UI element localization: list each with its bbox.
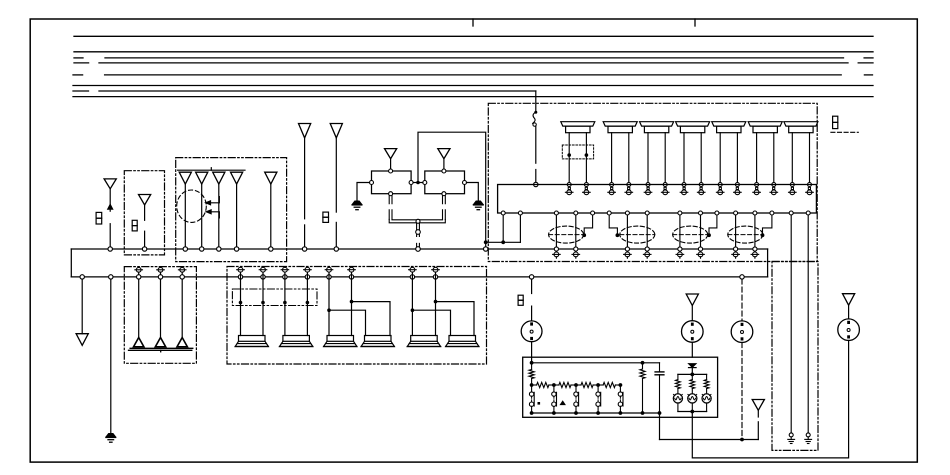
dash-dot box speaker group xyxy=(227,267,487,365)
branch wire W5 to speaker SP4 xyxy=(329,310,366,335)
relay K1 pin left xyxy=(370,181,374,185)
lamp L3 bottom wire xyxy=(706,403,708,412)
upper rail wire xyxy=(71,248,767,250)
wire T8 to rail xyxy=(304,138,306,219)
component N1 bar terminals xyxy=(568,187,570,189)
resistor R4 xyxy=(576,384,581,386)
speaker wire W7 xyxy=(411,272,413,335)
wire T2 upper xyxy=(144,205,146,220)
rotor contact arrow A1 xyxy=(205,201,210,205)
bar bottom pin nodes xyxy=(501,211,505,215)
component N5 leg wires xyxy=(719,133,721,185)
HT lead junction bracket xyxy=(389,219,416,236)
injector component N7 xyxy=(784,122,818,126)
dashed stub wire at F4 xyxy=(831,131,858,133)
control bar unit xyxy=(498,185,817,214)
shield drain wire D3 xyxy=(709,215,717,234)
wire T4 to rail xyxy=(201,184,203,249)
junction node on lower rail at C3 xyxy=(740,275,744,279)
junction dot CP1 bottom xyxy=(658,411,662,415)
ground G2 xyxy=(474,201,484,204)
lamp L1 bottom wire xyxy=(677,403,679,412)
junction node on upper rail at T5 xyxy=(217,247,221,251)
fuse F1 xyxy=(96,212,102,218)
wire pin ground lead GL1 xyxy=(790,215,792,433)
connector triangle T3 xyxy=(179,172,191,184)
injector component N6 xyxy=(748,122,782,126)
junction node on lower rail at plug 2 xyxy=(158,275,162,279)
HT lead K2 double wire xyxy=(442,196,444,204)
wire bus B7 drop xyxy=(535,91,537,111)
junction dot chain 5 xyxy=(619,383,623,387)
wire T1 to rail xyxy=(109,224,111,249)
component N6 bar pin nodes xyxy=(755,183,759,187)
junction dot W1 xyxy=(239,301,243,305)
junction dot switch 1 xyxy=(530,411,534,415)
connector triangle T2 xyxy=(139,195,151,206)
component N1 leg wires xyxy=(568,133,570,185)
injector component N5 xyxy=(712,122,746,126)
relay K1 pin right xyxy=(409,181,413,185)
junction dot W5 xyxy=(327,308,331,312)
capacitor CP1 xyxy=(659,363,661,372)
junction dot lamp node xyxy=(690,373,694,377)
wire gauge feed upper xyxy=(531,279,533,293)
rotor contact arrow A2 xyxy=(206,210,211,214)
component N7 bar terminals xyxy=(791,187,793,189)
wire T5 to rail xyxy=(218,184,220,249)
bus line B2 xyxy=(74,51,873,53)
junction node on upper rail at T7 xyxy=(269,247,273,251)
junction dot R6 bottom xyxy=(641,411,645,415)
speaker terminal 7 xyxy=(410,267,415,272)
lower rail wire xyxy=(71,276,767,278)
switch SW5 xyxy=(619,385,621,392)
fuse F4 xyxy=(833,116,838,122)
junction node on lower rail at speaker 2 xyxy=(261,275,265,279)
switch SW2 xyxy=(553,385,555,392)
component N5 bar pin nodes xyxy=(718,183,722,187)
spark plug P2 xyxy=(155,338,165,347)
shield drain wire D1 xyxy=(584,215,592,234)
speaker wire W3 xyxy=(284,272,286,335)
junction node on upper rail at T6 xyxy=(234,247,238,251)
diode D1 wire upper segment xyxy=(109,189,111,205)
relay K2 pin left xyxy=(423,181,427,185)
diode D1 xyxy=(108,204,113,209)
wire K1 left pin to ground xyxy=(357,183,370,201)
shield ellipse S3 xyxy=(673,226,708,243)
wire feed node to rail xyxy=(485,242,487,249)
resistor R6 vertical xyxy=(642,363,644,369)
shield drain wire D4 xyxy=(763,215,772,234)
distributor top bar wire xyxy=(178,169,245,171)
junction node on upper rail at T8 xyxy=(302,247,306,251)
spark plug terminal 2 xyxy=(158,267,163,272)
junction dot chain 1 xyxy=(530,383,534,387)
lamp branch top wire xyxy=(678,373,707,375)
switch SW2 mark xyxy=(560,401,565,404)
dash-dot box spark plug group xyxy=(124,267,196,364)
spark plug terminal 3 xyxy=(180,267,185,272)
gauge bottom bus wire xyxy=(532,412,660,414)
ground G5 xyxy=(106,434,116,437)
resistor R1 vertical xyxy=(531,363,533,370)
junction node on upper rail at feed xyxy=(484,247,488,251)
dash-dot box speaker connector xyxy=(232,289,317,306)
speaker terminal 5 xyxy=(327,267,332,272)
junction dot switch 5 xyxy=(619,411,623,415)
spark plug wire 3 xyxy=(181,272,183,337)
rail nodes S2 xyxy=(625,247,629,251)
junction node on lower rail at speaker 3 xyxy=(283,275,287,279)
spark plug wire 1 xyxy=(138,272,140,337)
component N4 bar terminals xyxy=(683,187,685,189)
junction node on lower rail at speaker 4 xyxy=(305,275,309,279)
wire T14 to connector C4 xyxy=(848,305,850,319)
speaker SP3 xyxy=(327,336,354,342)
indicator lamp L1 xyxy=(673,394,682,403)
branch wire W7 to speaker SP6 xyxy=(412,310,450,335)
junction dot W4 xyxy=(306,301,310,305)
lamp branch resistor R9 xyxy=(706,374,708,379)
junction dot gauge feed left xyxy=(530,361,534,365)
component N2 bar pin nodes xyxy=(610,183,614,187)
dash-dot box coil unit xyxy=(124,171,164,255)
wire pin P2 down xyxy=(519,215,521,242)
switch SW3 xyxy=(575,385,577,392)
wire T10 to relay K1 xyxy=(390,159,392,169)
connector C2 xyxy=(682,321,704,343)
speaker terminal 1 xyxy=(238,267,243,272)
connector triangle T11 xyxy=(438,149,450,159)
wire lamp node down xyxy=(691,412,693,418)
lamp L2 bottom wire xyxy=(691,403,693,412)
resistor R2 xyxy=(532,384,537,386)
connector C4 xyxy=(838,319,860,341)
wire C4 to gauge box bottom return xyxy=(692,341,848,458)
speaker wire W4 xyxy=(306,272,308,335)
connector triangle T10 xyxy=(385,149,397,159)
bus line B1 xyxy=(74,35,873,37)
bar pin node breaker xyxy=(534,182,538,186)
component N1 bar pin nodes xyxy=(567,183,571,187)
component N6 leg wires xyxy=(756,133,758,185)
junction node on lower rail at plug 1 xyxy=(137,275,141,279)
junction node on upper rail at T1 xyxy=(108,247,112,251)
junction dot chain 3 xyxy=(574,383,578,387)
rail right corner wire xyxy=(767,249,769,277)
wire C2 to gauge box xyxy=(691,342,693,357)
dotted box noise suppressor xyxy=(562,145,593,159)
relay K2 pin top xyxy=(442,169,446,173)
bus line B7 xyxy=(73,90,89,92)
fuse F2 xyxy=(132,220,137,225)
relay K2 pin right xyxy=(463,181,467,185)
wire pin ground lead GL2 xyxy=(807,215,809,433)
rail left corner wire xyxy=(70,249,72,277)
component N4 bar pin nodes xyxy=(682,183,686,187)
branch wire W6 to speaker SP4 xyxy=(352,302,391,336)
speaker SP1 xyxy=(239,336,266,342)
wire T9 upper xyxy=(335,138,337,212)
terminal glyphs S1 xyxy=(555,250,557,253)
HT lead K1 double wire xyxy=(388,196,390,204)
wire feed node to bar pins xyxy=(486,241,521,243)
speaker terminal 6 xyxy=(349,267,354,272)
indicator lamp L2 xyxy=(688,394,697,403)
junction node on upper rail at HT lead xyxy=(416,247,421,252)
speaker SP2 xyxy=(283,336,310,342)
lamp branch resistor R8 xyxy=(691,374,693,379)
bus line B8 xyxy=(73,96,873,98)
component N7 leg wires xyxy=(791,133,793,185)
component N6 bar terminals xyxy=(756,187,758,189)
wire K2 right pin to ground xyxy=(467,183,479,201)
bus line B5 xyxy=(73,74,83,76)
gauge top feed wire xyxy=(532,362,660,364)
relay K1 pin top xyxy=(389,169,393,173)
bus line B3 xyxy=(74,57,83,59)
speaker wire W5 xyxy=(328,272,330,335)
rail nodes S3 xyxy=(678,247,682,251)
relay K1 box xyxy=(372,171,412,194)
circuit breaker CB1 xyxy=(534,111,537,114)
junction dot chain 4 xyxy=(596,383,600,387)
component N3 leg wires xyxy=(647,133,649,185)
junction dot gauge feed mid xyxy=(641,361,645,365)
injector component N2 xyxy=(603,122,637,126)
rail nodes S1 xyxy=(554,247,558,251)
junction dot W8 xyxy=(434,300,438,304)
junction node on upper rail at T2 xyxy=(142,247,146,251)
diode D2 xyxy=(689,364,697,368)
wire T11 to relay K2 xyxy=(443,159,445,169)
junction node on lower rail at speaker 7 xyxy=(410,275,414,279)
relay K2 box xyxy=(425,171,465,194)
terminal glyphs S3 xyxy=(679,250,681,253)
dash-dot box control unit area xyxy=(488,103,817,261)
terminal glyphs S2 xyxy=(626,250,628,253)
HT lead lower double wire xyxy=(416,243,418,247)
junction dot switch 4 xyxy=(596,411,600,415)
junction node on upper rail at T9 xyxy=(334,247,338,251)
wire gauge feed lower xyxy=(531,306,533,321)
connector triangle T1 xyxy=(104,179,116,189)
connector C1 xyxy=(521,321,542,342)
connector triangle T13 xyxy=(686,294,698,306)
component N2 leg wires xyxy=(611,133,613,185)
spark plug wire 2 xyxy=(160,272,162,337)
junction node on lower rail at speaker 8 xyxy=(433,275,437,279)
indicator lamp L3 xyxy=(702,394,711,403)
junction dot feed node xyxy=(484,240,488,244)
wire T7 to rail xyxy=(270,184,272,249)
component N3 bar terminals xyxy=(647,187,649,189)
fuse F3 xyxy=(323,212,329,217)
junction dot at pin wire P1 xyxy=(501,240,505,244)
component N5 bar terminals xyxy=(719,187,721,189)
junction dot W2 xyxy=(261,301,265,305)
speaker SP6 xyxy=(449,336,476,342)
wire gauge box to bottom link xyxy=(659,413,661,440)
junction node on upper rail at T4 xyxy=(200,247,204,251)
connector triangle T4 xyxy=(196,172,208,184)
ground G4 xyxy=(806,433,810,437)
wire T3 to rail xyxy=(184,184,186,249)
shielded pair wires S3 xyxy=(679,215,681,249)
wire rail drop to connector triangle T12 xyxy=(80,275,84,279)
shield ellipse S1 xyxy=(549,226,584,243)
injector component N1 xyxy=(561,122,595,126)
connector triangle T5 xyxy=(213,172,225,184)
junction node on upper rail at T3 xyxy=(183,247,187,251)
speaker SP5 xyxy=(411,336,438,342)
dashed wire C3 down xyxy=(741,343,743,438)
speaker SP4 xyxy=(365,336,392,342)
junction node on lower rail at speaker 5 xyxy=(327,275,331,279)
ground G1 xyxy=(352,201,362,204)
speaker wire W1 xyxy=(240,272,242,335)
wire D2 to lamp node xyxy=(691,368,693,375)
dashed rotor circle xyxy=(177,190,207,222)
component N4 leg wires xyxy=(683,133,685,185)
junction dot W3 xyxy=(283,301,287,305)
junction dot chain 2 xyxy=(552,383,556,387)
connector C3 xyxy=(731,321,753,343)
ground G3 xyxy=(789,433,793,437)
speaker terminal 8 xyxy=(433,267,438,272)
switch SW1 xyxy=(531,385,533,392)
shield ellipse S2 xyxy=(620,226,655,243)
resistor R3 xyxy=(554,384,559,386)
connector triangle T7 xyxy=(265,172,277,184)
fold tick mark left xyxy=(472,19,474,26)
junction dot lamp bottom xyxy=(690,410,694,414)
speaker terminal 3 xyxy=(283,267,288,272)
switch SW1 mark xyxy=(538,402,541,405)
wire relay riser to right box xyxy=(418,132,486,242)
connector triangle T12 xyxy=(76,334,88,346)
speaker terminal 4 xyxy=(305,267,310,272)
rail nodes S4 xyxy=(734,247,738,251)
dashed wire rail to C3 xyxy=(741,279,743,321)
junction dot between relays xyxy=(416,181,420,185)
shield ellipse S4 xyxy=(728,226,763,243)
spark plug P3 xyxy=(177,338,187,347)
injector component N4 xyxy=(676,122,710,126)
connector triangle T15 xyxy=(752,400,764,411)
connector triangle T9 xyxy=(330,124,342,138)
junction dot C3 at bottom wire xyxy=(740,438,744,442)
junction dot W6 xyxy=(350,300,354,304)
shielded pair wires S4 xyxy=(735,215,737,249)
wire T2 to rail xyxy=(144,231,146,249)
branch wire W8 to speaker SP6 xyxy=(436,302,475,336)
component N7 bar pin nodes xyxy=(790,183,794,187)
relay K2 pin bottom xyxy=(442,192,446,196)
speaker terminal 2 xyxy=(261,267,266,272)
HT lead connector pair xyxy=(416,219,420,223)
wire breaker to bar xyxy=(535,126,537,163)
shield drain wire D2 xyxy=(609,215,617,234)
speaker wire W6 xyxy=(351,272,353,335)
resistor R5 xyxy=(598,384,603,386)
spark plug P1 xyxy=(134,338,144,347)
bus line B6 xyxy=(73,85,873,87)
junction node on lower rail at speaker 1 xyxy=(238,275,242,279)
bus line B4 xyxy=(74,62,89,64)
shielded pair wires S2 xyxy=(626,215,628,249)
wire rail drop to ground G5 xyxy=(109,275,113,279)
gauge assembly box xyxy=(523,357,718,417)
connector triangle T14 xyxy=(843,294,855,306)
wire K1-K2 junction link xyxy=(413,182,423,184)
relay K1 pin bottom xyxy=(389,192,393,196)
wire C1 to gauge box xyxy=(531,342,533,363)
junction dot W7 xyxy=(411,308,415,312)
fuse F5 xyxy=(518,295,523,300)
wire T15 down xyxy=(757,410,759,417)
dash-dot box ground shield area xyxy=(772,262,818,451)
junction dot switch 3 xyxy=(574,411,578,415)
dash-dot box distributor unit xyxy=(176,158,287,262)
junction dot switch 2 xyxy=(552,411,556,415)
wire T6 to rail xyxy=(236,184,238,249)
component N3 bar pin nodes xyxy=(646,183,650,187)
junction node on lower rail at speaker 6 xyxy=(349,275,353,279)
speaker wire W8 xyxy=(435,272,437,335)
speaker wire W2 xyxy=(262,272,264,335)
wire T13 to connector C2 xyxy=(691,306,693,321)
junction node on lower rail at plug 3 xyxy=(180,275,184,279)
shielded pair wires S1 xyxy=(555,215,557,249)
connector triangle T8 xyxy=(299,124,311,138)
bottom link wire xyxy=(660,439,759,441)
connector triangle T6 xyxy=(231,172,243,184)
injector component N3 xyxy=(640,122,674,126)
spark plug base double line xyxy=(130,347,193,349)
spark plug terminal 1 xyxy=(136,267,141,272)
wire pin P1 down xyxy=(502,215,504,242)
lamp branch resistor R7 xyxy=(677,374,679,379)
fold tick mark right xyxy=(694,19,696,26)
switch SW4 xyxy=(597,385,599,392)
lamp bottom link wire xyxy=(678,411,707,413)
junction node on lower rail at gauge feed xyxy=(529,275,533,279)
component N2 bar terminals xyxy=(611,187,613,189)
suppressor junction dots xyxy=(567,153,571,157)
terminal glyphs S4 xyxy=(735,250,737,253)
wire T9 to rail xyxy=(335,222,337,249)
